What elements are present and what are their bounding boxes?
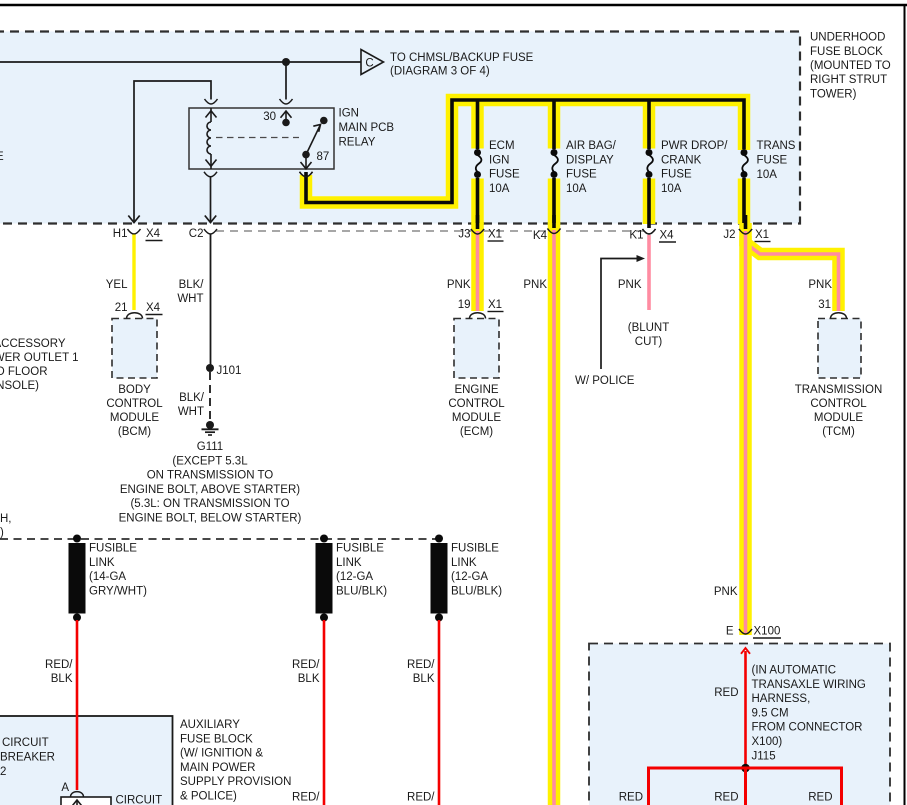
svg-text:AIR BAG/: AIR BAG/ (566, 140, 617, 152)
circuit breaker box (61, 795, 162, 805)
connector fork at relay coil top (205, 99, 218, 104)
svg-text:J2: J2 (723, 229, 735, 241)
svg-text:(DIAGRAM 3 OF 4): (DIAGRAM 3 OF 4) (390, 66, 490, 78)
svg-text:HARNESS,: HARNESS, (752, 693, 811, 705)
svg-text:K4: K4 (533, 230, 548, 242)
svg-text:RED/: RED/ (292, 659, 320, 671)
connector fork below relay pin 87 (300, 172, 313, 177)
svg-text:(BCM): (BCM) (118, 426, 151, 438)
relay U1: IGN MAIN PCB RELAY box (189, 108, 334, 169)
connector forks overlay J3 K4 K1 J2, relay exits (204, 172, 752, 234)
fusible link FL3 (12-GA BLU/BLK) (431, 535, 503, 622)
svg-text:PNK: PNK (523, 279, 547, 291)
svg-text:X4: X4 (146, 228, 161, 240)
svg-text:FUSIBLE: FUSIBLE (89, 543, 137, 555)
wire RED/BLK FL3 down off page (407, 620, 439, 805)
svg-text:(W/ IGNITION &: (W/ IGNITION & (180, 748, 263, 760)
svg-text:19: 19 (458, 299, 471, 311)
svg-text:X4: X4 (146, 302, 161, 314)
svg-text:H,: H, (0, 513, 12, 525)
svg-text:X100: X100 (754, 626, 781, 638)
left edge text fragment (harness note) (0, 513, 12, 539)
svg-text:MAIN POWER: MAIN POWER (180, 762, 255, 774)
svg-text:TRANSMISSION: TRANSMISSION (795, 384, 883, 396)
svg-text:(12-GA: (12-GA (451, 571, 488, 583)
svg-text:(5.3L: ON TRANSMISSION TO: (5.3L: ON TRANSMISSION TO (130, 498, 289, 510)
svg-text:PNK: PNK (618, 279, 642, 291)
label: UNDERHOOD FUSE BLOCK (810, 32, 891, 101)
svg-text:(TCM): (TCM) (822, 426, 855, 438)
fuse F2 AIR BAG/DISPLAY FUSE 10A (551, 140, 617, 195)
node H1 (connector X4) (113, 228, 163, 241)
svg-text:MODULE: MODULE (452, 412, 502, 424)
wire BLK/WHT J101 to ground (dashed) (178, 372, 210, 421)
svg-text:(MOUNTED TO: (MOUNTED TO (810, 60, 891, 72)
ground G111 (119, 421, 302, 525)
svg-text:AUXILIARY: AUXILIARY (180, 719, 240, 731)
svg-text:10A: 10A (757, 169, 778, 181)
svg-text:CONTROL: CONTROL (106, 398, 163, 410)
svg-text:TRANSAXLE WIRING: TRANSAXLE WIRING (752, 679, 866, 691)
thin gray dashed connector line C2 to K1 (216, 230, 644, 232)
svg-text:TO CHMSL/BACKUP FUSE: TO CHMSL/BACKUP FUSE (390, 52, 534, 64)
svg-text:BLK/: BLK/ (179, 392, 205, 404)
splice J101 (206, 364, 241, 377)
svg-text:RED/: RED/ (407, 792, 435, 804)
svg-text:CUT): CUT) (635, 336, 663, 348)
svg-text:BLK: BLK (413, 673, 435, 685)
svg-text:MODULE: MODULE (814, 412, 864, 424)
svg-text:ECM: ECM (489, 140, 515, 152)
svg-text:CONSOLE): CONSOLE) (0, 380, 39, 392)
page frame top border (0, 4, 907, 7)
fuse F1 ECM IGN FUSE 10A (474, 140, 520, 195)
svg-text:BLK/: BLK/ (179, 279, 205, 291)
dashed feed line to fusible links (0, 538, 439, 540)
svg-text:E: E (726, 626, 734, 638)
svg-text:E: E (0, 151, 4, 163)
svg-text:CIRCUIT: CIRCUIT (2, 737, 49, 749)
svg-text:LINK: LINK (336, 557, 362, 569)
svg-text:GRY/WHT): GRY/WHT) (89, 585, 147, 597)
highlighted bus: yellow band from relay 87 to fuses (306, 100, 744, 224)
svg-text:TRANS: TRANS (757, 140, 796, 152)
relay internal dashed link (216, 137, 299, 139)
fusible link FL1 (14-GA GRY/WHT) (69, 535, 148, 622)
svg-text:FUSE: FUSE (661, 169, 692, 181)
svg-text:10A: 10A (489, 183, 510, 195)
svg-text:X1: X1 (488, 229, 502, 241)
svg-text:RED/: RED/ (292, 792, 320, 804)
svg-text:SUPPLY PROVISION: SUPPLY PROVISION (180, 776, 291, 788)
svg-text:ENGINE: ENGINE (454, 384, 498, 396)
fuse F4 TRANS FUSE 10A (741, 140, 796, 181)
svg-text:W/ POLICE: W/ POLICE (575, 375, 635, 387)
relay pin 87 (301, 151, 330, 169)
svg-text:(14-GA: (14-GA (89, 571, 126, 583)
svg-text:A: A (61, 782, 69, 794)
underhood fuse block box (dashed) (0, 32, 800, 224)
svg-text:10A: 10A (566, 183, 587, 195)
svg-text:BLK: BLK (298, 673, 320, 685)
svg-text:UNDERHOOD: UNDERHOOD (810, 32, 885, 44)
svg-text:9.5 CM: 9.5 CM (752, 707, 789, 719)
arrow down at H1 (128, 216, 139, 223)
svg-text:BLU/BLK): BLU/BLK) (451, 585, 502, 597)
wire RED/BLK FL1 to circuit breaker A (45, 620, 77, 790)
svg-text:CONTROL: CONTROL (448, 398, 505, 410)
svg-text:IGN: IGN (489, 154, 509, 166)
svg-text:DISPLAY: DISPLAY (566, 154, 614, 166)
svg-text:BLU/BLK): BLU/BLK) (336, 585, 387, 597)
node J2 (connector X1) (723, 229, 770, 242)
transaxle harness box (dashed, bottom right) (589, 644, 890, 805)
svg-text:FUSE: FUSE (489, 169, 520, 181)
splice J115 (741, 764, 750, 773)
label (IN AUTOMATIC TRANSAXLE WIRING HARNESS ...) J115 (752, 665, 866, 763)
module TCM box (795, 299, 883, 438)
wire RED left/right branches from J115 (619, 768, 842, 805)
svg-text:POWER OUTLET 1: POWER OUTLET 1 (0, 352, 79, 364)
svg-text:ENGINE BOLT, BELOW STARTER): ENGINE BOLT, BELOW STARTER) (119, 513, 302, 525)
svg-text:G111: G111 (197, 441, 223, 453)
page frame right border (904, 4, 906, 805)
svg-text:RED/: RED/ (45, 659, 73, 671)
svg-text:(ECM): (ECM) (460, 426, 493, 438)
relay coil (206, 108, 217, 169)
svg-text:RED: RED (714, 687, 738, 699)
svg-text:J101: J101 (217, 365, 242, 377)
svg-text:X1: X1 (488, 299, 502, 311)
svg-text:TO FLOOR: TO FLOOR (0, 366, 48, 378)
svg-text:X1: X1 (755, 229, 769, 241)
svg-text:WHT: WHT (177, 293, 203, 305)
svg-text:RIGHT STRUT: RIGHT STRUT (810, 74, 887, 86)
relay switch blade (302, 125, 320, 159)
svg-text:FUSE BLOCK: FUSE BLOCK (180, 733, 253, 745)
label AUXILIARY FUSE BLOCK (180, 719, 291, 803)
svg-text:CRANK: CRANK (661, 154, 702, 166)
connector triangle C to CHMSL/BACKUP fuse (361, 50, 534, 78)
svg-text:LINK: LINK (451, 557, 477, 569)
relay N.O. contact dot (320, 117, 328, 125)
wire: feed down to relay pin 30 (285, 62, 287, 100)
svg-text:MODULE: MODULE (110, 412, 160, 424)
svg-text:RED: RED (714, 792, 738, 804)
svg-text:PNK: PNK (808, 279, 832, 291)
wire: relay coil bottom down to C2 (210, 177, 212, 223)
svg-text:RED/: RED/ (407, 659, 435, 671)
svg-text:LINK: LINK (89, 557, 115, 569)
svg-text:87: 87 (317, 151, 330, 163)
svg-text:J115: J115 (752, 750, 776, 762)
svg-text:CIRCUIT: CIRCUIT (116, 795, 163, 805)
svg-text:C: C (365, 58, 373, 70)
bus black core wires (306, 100, 744, 229)
wire RED X100 to J115 (714, 648, 750, 768)
svg-text:BODY: BODY (118, 384, 151, 396)
callout arrow W/ POLICE (575, 255, 645, 387)
relay pin 30 contact (263, 111, 291, 126)
wire PNK J3 to ECM pin 19 (highlighted) (447, 223, 478, 311)
svg-text:(ACCESSORY: (ACCESSORY (0, 338, 66, 350)
svg-text:YEL: YEL (106, 279, 128, 291)
svg-text:FUSE: FUSE (757, 155, 788, 167)
label CIRCUIT BREAKER 2 (inside aux fuse block) (0, 737, 55, 778)
svg-text:MAIN PCB: MAIN PCB (339, 122, 395, 134)
svg-text:TOWER): TOWER) (810, 89, 857, 101)
wire BLK/WHT C2 to J101 (177, 234, 210, 368)
wire PNK K4 down off page (highlighted) (523, 223, 554, 805)
svg-text:C2: C2 (189, 228, 204, 240)
wire YEL H1 to BCM pin 21 (106, 235, 134, 311)
svg-text:21: 21 (115, 302, 128, 314)
svg-text:WHT: WHT (178, 406, 204, 418)
svg-text:& POLICE): & POLICE) (180, 791, 237, 803)
svg-text:FUSE: FUSE (566, 169, 597, 181)
node J3 (connector X1) (458, 229, 503, 242)
junction on main feed (282, 58, 290, 66)
svg-text:RED: RED (619, 792, 643, 804)
svg-text:(BLUNT: (BLUNT (628, 322, 670, 334)
svg-text:(IN AUTOMATIC: (IN AUTOMATIC (752, 665, 837, 677)
node C2 (189, 228, 217, 240)
svg-text:FROM CONNECTOR: FROM CONNECTOR (752, 722, 863, 734)
svg-text:J3: J3 (458, 229, 470, 241)
black core stubs crossing border at J3/K4/J2 (478, 215, 746, 229)
svg-text:ENGINE BOLT, ABOVE STARTER): ENGINE BOLT, ABOVE STARTER) (120, 484, 300, 496)
svg-text:FUSE BLOCK: FUSE BLOCK (810, 46, 883, 58)
svg-text:10A: 10A (661, 183, 682, 195)
svg-text:PNK: PNK (447, 279, 471, 291)
svg-text:PWR DROP/: PWR DROP/ (661, 140, 728, 152)
wire: main battery feed horizontal (0, 61, 361, 63)
wire PNK J2 branch to TCM pin 31 (highlighted) (746, 233, 839, 311)
svg-text:CONTROL: CONTROL (810, 398, 867, 410)
svg-text:FUSIBLE: FUSIBLE (336, 543, 384, 555)
svg-text:ON TRANSMISSION TO: ON TRANSMISSION TO (147, 470, 274, 482)
svg-text:(EXCEPT 5.3L: (EXCEPT 5.3L (172, 455, 248, 467)
svg-text:FUSIBLE: FUSIBLE (451, 543, 499, 555)
wire PNK J2 down to X100 (highlighted) (714, 223, 746, 635)
svg-text:30: 30 (263, 111, 276, 123)
svg-text:2: 2 (0, 766, 6, 778)
svg-text:(12-GA: (12-GA (336, 571, 373, 583)
svg-text:PNK: PNK (714, 586, 738, 598)
svg-text:X100): X100) (752, 736, 783, 748)
svg-text:RELAY: RELAY (339, 137, 376, 149)
svg-text:): ) (0, 527, 4, 539)
svg-text:RED: RED (808, 792, 832, 804)
svg-text:IGN: IGN (339, 108, 359, 120)
node K4 (533, 229, 561, 243)
node E (connector X100) (726, 626, 781, 639)
svg-text:X4: X4 (660, 230, 675, 242)
node K1 (connector X4) (629, 229, 676, 242)
svg-text:31: 31 (818, 299, 831, 311)
wire: coil feed (from H1 up and over to coil) (134, 81, 211, 223)
node A (circuit breaker pin) (61, 782, 83, 797)
wire PNK K1 to blunt cut (618, 235, 669, 348)
svg-text:H1: H1 (113, 228, 128, 240)
svg-text:K1: K1 (629, 230, 643, 242)
left edge text fragment (ACCESSORY POWER OUTLET ...) (0, 338, 79, 392)
module ECM box (448, 299, 505, 438)
fuse F3 PWR DROP/CRANK FUSE 10A (646, 140, 729, 195)
connector fork at relay pin 30 (280, 99, 293, 104)
svg-text:BLK: BLK (51, 673, 73, 685)
module BCM box (106, 302, 163, 438)
svg-text:BREAKER: BREAKER (0, 752, 55, 764)
auxiliary fuse block box (bottom left) (0, 716, 173, 805)
fusible link FL2 (12-GA BLU/BLK) (316, 535, 388, 622)
wire RED/BLK FL2 down off page (292, 620, 324, 805)
